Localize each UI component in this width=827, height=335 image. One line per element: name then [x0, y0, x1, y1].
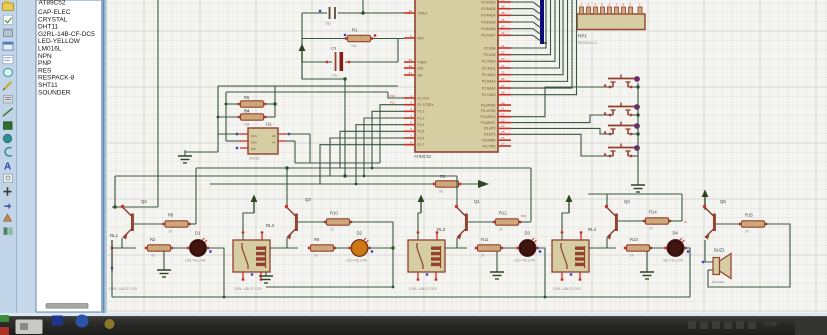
wire R2-D1: [172, 247, 190, 249]
svg-text:D1: D1: [195, 231, 201, 236]
resistor R5: [238, 95, 267, 114]
svg-text:27: 27: [501, 84, 505, 88]
wire P0 pin to bus: [511, 22, 541, 28]
LED D1: [185, 231, 212, 263]
svg-text:35: 35: [501, 11, 505, 15]
wire RST net: [302, 38, 346, 40]
ground RL3: [490, 251, 504, 279]
svg-text:SHT11: SHT11: [38, 82, 58, 89]
ground RL2: [259, 272, 273, 283]
LED D2: [347, 231, 374, 263]
svg-text:28: 28: [501, 90, 505, 94]
wire button4 to P3.5: [511, 134, 611, 156]
svg-text:RL4: RL4: [588, 227, 597, 232]
svg-text:29: 29: [409, 58, 413, 62]
svg-text:D3: D3: [525, 231, 531, 236]
wire U1 A0 drop: [309, 134, 311, 163]
svg-text:6: 6: [410, 127, 412, 131]
wire P1.0: [388, 92, 404, 98]
capacitor C3 CAP-ELEC: [326, 46, 351, 78]
toolbar icon 6: [4, 69, 13, 77]
svg-text:14: 14: [501, 124, 505, 128]
svg-text:P3.2/INT0: P3.2/INT0: [481, 115, 496, 119]
svg-text:AT89C52: AT89C52: [414, 154, 432, 159]
wire P2 to RP1 b: [511, 0, 563, 75]
svg-text:Q3: Q3: [305, 197, 311, 202]
svg-text:SOUNDER: SOUNDER: [38, 89, 71, 96]
wire below reset: [302, 62, 345, 79]
svg-text:P1.2: P1.2: [418, 110, 425, 114]
wire buzzer pin2: [708, 269, 713, 271]
svg-text:1k: 1k: [745, 230, 749, 234]
svg-text:LED-YELLOW: LED-YELLOW: [663, 259, 684, 263]
LED D4: [663, 231, 690, 263]
wire Q3 collector feed: [286, 168, 288, 206]
wire P2 to RP1: [511, 0, 551, 55]
wire XTAL2 net b: [338, 12, 404, 14]
wire D1 right: [207, 248, 224, 297]
junction 287 168: [285, 166, 288, 169]
wire R8 feed: [195, 168, 197, 224]
wire Q5 base: [716, 223, 741, 225]
toolbar icon 11: [3, 134, 11, 142]
wire VCC rail left: [301, 13, 303, 79]
svg-text:24: 24: [501, 64, 505, 68]
svg-text:9: 9: [410, 34, 412, 38]
svg-text:DHT11: DHT11: [38, 24, 58, 31]
svg-text:P1.0/T2: P1.0/T2: [418, 96, 430, 100]
svg-text:PNP: PNP: [38, 60, 51, 67]
svg-text:32: 32: [501, 31, 505, 35]
svg-text:10: 10: [501, 101, 505, 105]
svg-text:34: 34: [501, 18, 505, 22]
wire P1.3: [364, 118, 404, 176]
bus P0: [540, 0, 544, 44]
svg-text:7: 7: [410, 134, 412, 138]
svg-text:24C32: 24C32: [249, 157, 260, 161]
wire P0 pin to bus: [511, 35, 541, 41]
svg-text:10u: 10u: [332, 74, 338, 78]
transistor Q3: [285, 197, 312, 240]
taskbar green icon: [0, 315, 9, 322]
junction 345 79: [343, 77, 346, 80]
svg-text:A: A: [4, 161, 11, 172]
svg-text:10k: 10k: [244, 123, 250, 127]
wire R12 feed: [530, 168, 532, 222]
taskbar top line: [0, 316, 827, 318]
toolbar icon 10: [4, 122, 13, 130]
wire R14 right drop: [681, 194, 683, 221]
wire long vertical 345: [344, 79, 346, 176]
svg-text:G2RL-14B-CF-DC5: G2RL-14B-CF-DC5: [234, 287, 262, 291]
wire bottom rail: [112, 296, 690, 298]
svg-text:R13: R13: [630, 237, 638, 242]
wire RL3 hook: [418, 213, 421, 240]
wire loop outer top: [218, 85, 398, 87]
wire Q5 collector: [704, 208, 706, 210]
wire U1 right drop: [294, 141, 296, 163]
svg-text:Q2: Q2: [141, 199, 147, 204]
resistor R14: [643, 210, 672, 231]
svg-text:Q5: Q5: [720, 199, 726, 204]
svg-text:5: 5: [410, 121, 412, 125]
wire P2 to RP1 b: [511, 0, 572, 88]
relay RL4: [552, 227, 597, 291]
svg-text:P3.3/INT1: P3.3/INT1: [481, 121, 496, 125]
ground U1: [178, 150, 192, 163]
svg-text:1k: 1k: [314, 254, 318, 258]
svg-text:RP1: RP1: [578, 34, 587, 39]
svg-text:1: 1: [410, 94, 412, 98]
svg-text:A1: A1: [272, 141, 276, 145]
wire U1 SCK: [218, 133, 240, 135]
svg-text:AT89C52: AT89C52: [39, 0, 66, 7]
edit area border line: [103, 0, 105, 313]
component list box: [36, 0, 102, 312]
push button SW4: [604, 144, 640, 158]
taskbar start button: [16, 320, 43, 335]
push button SW2: [604, 103, 640, 117]
wire Q3 base: [298, 221, 326, 223]
wire LED4 row: [589, 247, 616, 249]
toolbar icon 2: [4, 15, 13, 25]
svg-text:Q4: Q4: [624, 199, 630, 204]
svg-text:XTAL2: XTAL2: [418, 11, 428, 15]
svg-text:R15: R15: [745, 213, 753, 218]
svg-text:R1: R1: [352, 28, 358, 33]
svg-text:ALE: ALE: [418, 66, 425, 70]
wire R8 right: [189, 223, 196, 225]
svg-text:D4: D4: [673, 231, 679, 236]
wire button3 to P3.4: [511, 128, 611, 134]
svg-text:RL2: RL2: [266, 223, 275, 228]
svg-text:C3: C3: [331, 46, 337, 51]
list scrollbar: [46, 304, 88, 309]
resistor R1: [345, 28, 374, 49]
wire LED1 row: [112, 247, 136, 249]
wire R5 right: [265, 103, 275, 105]
svg-text:18: 18: [409, 9, 413, 13]
panel background: [17, 0, 103, 316]
buzzer BUZ1: [702, 248, 731, 285]
toolbar icon 3: [4, 28, 13, 36]
svg-text:D2: D2: [357, 231, 363, 236]
svg-text:14: 14: [684, 220, 688, 224]
svg-text:P1.6: P1.6: [418, 136, 425, 140]
junction bottom: [223, 296, 226, 299]
wire RL2 bottom loop: [266, 286, 393, 288]
svg-text:CRYSTAL: CRYSTAL: [38, 16, 68, 23]
svg-text:R14: R14: [649, 210, 657, 215]
wire P2 to RP1 b: [511, 0, 568, 81]
svg-text:BUZZER: BUZZER: [712, 280, 725, 284]
MCU left pins XTAL2 RST PSEN ALE EA P1.0-P1.7: [404, 9, 434, 147]
resistor R10: [324, 211, 353, 232]
svg-text:P0.3/AD3: P0.3/AD3: [481, 7, 495, 11]
wire Q4 base: [618, 220, 645, 222]
power VCC RL2: [251, 195, 258, 214]
svg-text:P3.0/RXD: P3.0/RXD: [481, 103, 496, 107]
junction XTAL: [361, 11, 364, 14]
wire Q2 emitter drop: [121, 238, 123, 248]
svg-text:37: 37: [501, 0, 505, 2]
svg-text:3: 3: [410, 107, 412, 111]
wire button2 to P3.3: [511, 115, 611, 123]
svg-text:P11: P11: [390, 101, 395, 105]
junction 115 207: [113, 205, 116, 208]
toolbar icon 4: [3, 42, 13, 50]
wire U1 bottom: [295, 162, 380, 164]
toolbar icon 14: [4, 174, 13, 183]
wire P0 pin to bus: [511, 29, 541, 35]
wire RST net b: [372, 38, 404, 40]
power VCC Q5: [702, 190, 709, 209]
wire P0 pin to bus: [511, 2, 541, 8]
svg-text:P2.5/A13: P2.5/A13: [482, 80, 496, 84]
svg-text:P3.1/TXD: P3.1/TXD: [481, 109, 496, 113]
svg-text:12: 12: [501, 113, 505, 117]
LED D3: [515, 231, 542, 263]
capacitor C1: [319, 7, 335, 26]
svg-text:21: 21: [501, 44, 505, 48]
svg-text:P1.7: P1.7: [418, 143, 425, 147]
junction 393 248: [391, 246, 394, 249]
wire C3 net: [302, 61, 332, 63]
svg-text:P2.7/A15: P2.7/A15: [482, 93, 496, 97]
wire R4 left: [218, 116, 239, 118]
window bottom edge: [0, 313, 827, 317]
svg-text:BUZ1: BUZ1: [714, 248, 725, 253]
svg-text:SDA: SDA: [251, 141, 257, 145]
transistor Q5: [703, 199, 727, 240]
wire P1.7: [320, 145, 404, 184]
svg-text:P0.6/AD6: P0.6/AD6: [481, 27, 495, 31]
svg-text:P0.4/AD4: P0.4/AD4: [481, 14, 495, 18]
svg-text:P0.5/AD5: P0.5/AD5: [481, 20, 495, 24]
svg-text:RL1: RL1: [110, 233, 119, 238]
svg-text:10k: 10k: [351, 44, 357, 48]
taskbar red icon: [0, 327, 9, 335]
wire R11-D3: [501, 247, 519, 249]
svg-text:33: 33: [501, 25, 505, 29]
resistor R3: [433, 174, 462, 194]
wire Q4 top rail: [588, 193, 682, 195]
toolbar icon 16: [4, 203, 11, 209]
svg-text:25: 25: [501, 70, 505, 74]
toolbar icon 17: [4, 214, 12, 221]
svg-text:G2RL-14B-CF-DC5: G2RL-14B-CF-DC5: [38, 31, 95, 38]
wire R5 left: [226, 103, 239, 105]
svg-text:P3.4/T0: P3.4/T0: [484, 127, 496, 131]
push button SW1: [604, 75, 640, 89]
edit area border line2: [106, 0, 108, 313]
svg-text:17: 17: [501, 142, 505, 146]
svg-text:P13: P13: [521, 214, 526, 218]
svg-text:P1.1/T2EX: P1.1/T2EX: [418, 103, 435, 107]
svg-text:30: 30: [409, 64, 413, 68]
wire U1 SDA: [226, 140, 240, 142]
svg-text:23: 23: [501, 57, 505, 61]
wire P1.1: [380, 105, 404, 163]
svg-text:LED-YELLOW: LED-YELLOW: [515, 259, 536, 263]
power VCC RL4: [566, 195, 573, 214]
svg-text:1k: 1k: [630, 254, 634, 258]
svg-text:R3: R3: [440, 174, 446, 179]
svg-text:P1.5: P1.5: [418, 130, 425, 134]
svg-text:13: 13: [501, 118, 505, 122]
ground RL1: [157, 251, 171, 277]
svg-text:1k: 1k: [330, 228, 334, 232]
toolbar strip background: [0, 0, 17, 316]
wire Q5 emitter drop: [705, 240, 713, 262]
wire D2 right: [368, 247, 393, 249]
wire rail C: [210, 183, 438, 185]
junction buttons rail: [636, 85, 639, 88]
MCU U2 AT89C52 body: [414, 0, 498, 159]
resistor R12: [493, 211, 522, 232]
svg-text:1k: 1k: [439, 190, 443, 194]
svg-text:LM016L: LM016L: [38, 46, 62, 53]
svg-text:RL3: RL3: [437, 227, 446, 232]
resistor R9: [308, 237, 337, 258]
svg-text:R4: R4: [244, 109, 250, 114]
taskbar icon olive: [105, 319, 115, 329]
wire RL1 left drop: [111, 240, 113, 297]
svg-text:RESPACK-8: RESPACK-8: [578, 41, 597, 45]
wire Q4 emitter drop: [606, 238, 608, 248]
ground RL4: [640, 251, 654, 279]
svg-text:RST: RST: [418, 36, 425, 40]
svg-text:P0.2/AD2: P0.2/AD2: [481, 0, 495, 4]
wire R14 right: [669, 220, 682, 222]
svg-text:A0: A0: [272, 134, 276, 138]
relay RL3: [408, 227, 446, 291]
wire rail B: [115, 175, 457, 177]
transistor Q1: [455, 199, 481, 240]
marker R1: [344, 34, 346, 36]
toolbar icon 9: [3, 108, 13, 116]
wire rail A: [196, 167, 531, 169]
svg-text:30p: 30p: [325, 22, 331, 26]
relay RL1 clipped edge: [109, 233, 137, 291]
wire loop inner top: [226, 91, 388, 93]
svg-text:P10: P10: [390, 94, 395, 98]
wire buttons common rail: [637, 83, 639, 183]
wire Q1 collector feed: [456, 176, 458, 206]
svg-text:R5: R5: [244, 95, 250, 100]
wire U1 A1: [286, 140, 295, 142]
wire R15 right: [708, 224, 790, 287]
toolbar icon 7: [3, 82, 12, 91]
EEPROM U1 24C32: [236, 122, 290, 161]
wire loop inner left: [225, 92, 227, 141]
wire Q1 emitter drop: [456, 238, 458, 248]
wire R9-D2: [334, 247, 351, 249]
svg-text:U1: U1: [266, 122, 272, 127]
wire LED2 row: [270, 247, 298, 249]
wire RL4 hook: [562, 213, 569, 240]
taskbar start glyph: [20, 323, 28, 330]
svg-text:SCK: SCK: [251, 134, 257, 138]
wire loop outer left: [217, 86, 219, 152]
wire RL2 hook: [243, 213, 254, 240]
power VCC RL3: [418, 195, 425, 214]
wire C3 net b: [345, 61, 398, 63]
svg-text:R9: R9: [314, 237, 320, 242]
power VCC reset: [299, 44, 306, 63]
svg-text:NPN: NPN: [38, 53, 52, 60]
ground buttons: [631, 183, 645, 192]
resistor R13: [624, 237, 653, 258]
svg-text:P2.1/A9: P2.1/A9: [484, 53, 496, 57]
taskbar icon blue1: [52, 316, 63, 326]
svg-text:P1.3: P1.3: [418, 116, 425, 120]
svg-text:1k: 1k: [499, 228, 503, 232]
wire Q2 base: [134, 223, 164, 225]
resistor R4: [238, 109, 267, 127]
taskbar tray: [688, 321, 756, 329]
svg-text:36: 36: [501, 5, 505, 9]
svg-text:G2RL-14B-CF-DC5: G2RL-14B-CF-DC5: [553, 287, 581, 291]
wire Q4 collector top: [606, 194, 608, 206]
svg-text:R11: R11: [481, 237, 489, 242]
wire P1.2: [372, 111, 404, 168]
wire P2 to RP1: [511, 0, 555, 61]
wire R13-D4: [650, 247, 667, 249]
push button SW3: [604, 122, 640, 136]
svg-text:R2: R2: [150, 237, 156, 242]
svg-text:LED-YELLOW: LED-YELLOW: [347, 259, 368, 263]
svg-text:LED-YELLOW: LED-YELLOW: [185, 259, 206, 263]
toolbar icon 12: [5, 148, 12, 156]
wire long vertical 158: [157, 0, 159, 207]
svg-text:P2.0/A8: P2.0/A8: [484, 46, 496, 50]
toolbar icon 5: [3, 55, 13, 64]
MCU right pins P0 P2 P3: [481, 0, 511, 148]
svg-text:PSEN: PSEN: [418, 60, 428, 64]
svg-text:P2.4/A12: P2.4/A12: [482, 73, 496, 77]
svg-text:R8: R8: [168, 213, 174, 218]
svg-text:G2RL-14B-CF-DC5: G2RL-14B-CF-DC5: [409, 287, 437, 291]
wire Q1 base: [468, 221, 495, 223]
svg-text:RESPACK-8: RESPACK-8: [38, 75, 75, 82]
svg-text:Q1: Q1: [474, 199, 480, 204]
wire P2 to RP1: [511, 0, 560, 68]
transistor Q4: [605, 199, 631, 240]
toolbar icon 15: [4, 187, 12, 196]
wire P0 pin to bus: [511, 15, 541, 21]
resistor R2: [145, 237, 174, 258]
svg-text:1k: 1k: [151, 254, 155, 258]
svg-text:WP: WP: [251, 147, 256, 151]
component list items: [38, 0, 95, 96]
svg-text:R10: R10: [330, 211, 338, 216]
wire Q3 emitter drop: [286, 238, 288, 248]
svg-text:LED-YELLOW: LED-YELLOW: [38, 38, 81, 45]
wire R12 right: [519, 221, 531, 223]
taskbar icon blue2: [76, 315, 89, 328]
svg-text:R12: R12: [499, 211, 507, 216]
panel right border: [102, 0, 108, 313]
wire rail C arrow seg: [456, 183, 478, 185]
resistor R15: [739, 213, 768, 234]
bus corner: [542, 42, 547, 44]
wire U1 A0: [286, 133, 310, 135]
wire XTAL2 net: [302, 12, 327, 14]
wire P1.5: [340, 131, 404, 168]
toolbar icon 8: [4, 95, 13, 103]
wire P1.4: [356, 125, 404, 184]
